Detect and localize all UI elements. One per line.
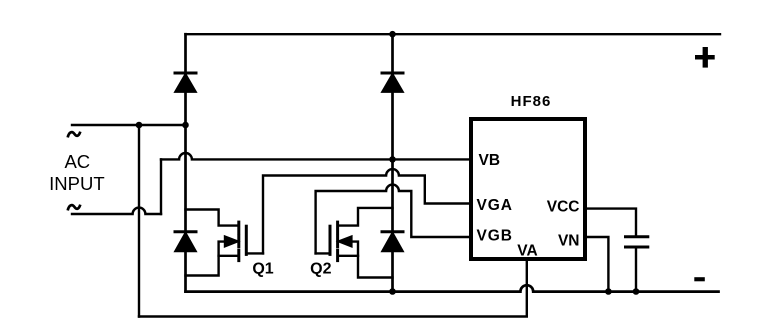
wire capacitor to - rail bbox=[635, 247, 637, 292]
node label ~ (top AC terminal) bbox=[68, 132, 81, 138]
junction dot VB / right bridge bbox=[389, 156, 396, 163]
svg-text:VA: VA bbox=[517, 243, 537, 260]
wire bottom - rail (hops over VA line) bbox=[186, 285, 719, 291]
svg-text:INPUT: INPUT bbox=[49, 173, 105, 194]
svg-text:VB: VB bbox=[479, 152, 501, 169]
transistor Q1 bbox=[186, 210, 264, 276]
junction dot bottom rail / right bridge bbox=[389, 288, 396, 295]
plus output terminal bbox=[695, 47, 715, 68]
wire VB net (hops over left bridge vertical) bbox=[161, 153, 470, 159]
wire VCC to capacitor bbox=[587, 209, 636, 236]
svg-text:VCC: VCC bbox=[547, 199, 580, 216]
junction dot AC line 1 / left bridge bbox=[182, 122, 189, 129]
svg-text:VGB: VGB bbox=[477, 228, 513, 245]
wire VA net bbox=[139, 261, 527, 317]
svg-text:HF86: HF86 bbox=[511, 93, 552, 110]
wire VN to - rail bbox=[587, 237, 608, 292]
diode D2 bbox=[382, 73, 403, 92]
wire right bridge vertical (D2/D4 branch) bbox=[391, 34, 394, 291]
junction dot top rail / right bridge bbox=[389, 31, 396, 38]
svg-text:Q1: Q1 bbox=[252, 261, 273, 278]
wire AC line 2 riser bbox=[160, 159, 162, 214]
body diode D3 bbox=[175, 232, 196, 251]
svg-text:VN: VN bbox=[558, 233, 580, 250]
wire top + rail bbox=[186, 33, 721, 35]
body diode D4 bbox=[382, 232, 403, 251]
diode D1 bbox=[175, 73, 196, 92]
capacitor C1 bbox=[626, 237, 648, 247]
transistor Q2 bbox=[316, 208, 393, 278]
IC U1 HF86 body bbox=[471, 119, 585, 259]
wire left bridge vertical (D1/D3 branch) bbox=[184, 34, 187, 291]
junction dot AC line 1 / VA vertical bbox=[136, 122, 143, 129]
wire AC line 1 to VA net vertical bbox=[138, 125, 140, 317]
wire AC line 2 (hops over vertical) bbox=[72, 208, 161, 214]
wire AC line 1 bbox=[72, 124, 186, 126]
svg-text:Q2: Q2 bbox=[310, 261, 331, 278]
wire Q1 gate to VGA (hops over right bridge vertical) bbox=[263, 169, 470, 253]
svg-text:VGA: VGA bbox=[477, 197, 513, 214]
minus output terminal bbox=[694, 277, 705, 281]
wire Q2 gate to VGB (hops over right bridge vertical) bbox=[316, 185, 470, 254]
junction dot bottom rail / VN bbox=[605, 288, 612, 295]
node label ~ (bottom AC terminal) bbox=[68, 205, 81, 211]
junction dot bottom rail / capacitor bbox=[633, 288, 640, 295]
svg-text:AC: AC bbox=[64, 151, 90, 172]
